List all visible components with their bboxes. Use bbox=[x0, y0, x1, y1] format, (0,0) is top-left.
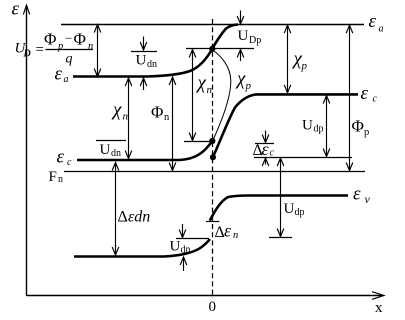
svg-text:F: F bbox=[49, 169, 57, 185]
tick at valence band right junction end bbox=[206, 221, 219, 223]
svg-text:c: c bbox=[67, 157, 72, 168]
svg-text:q: q bbox=[66, 52, 73, 67]
valence band right (epsilon_v, thick) bbox=[210, 196, 348, 221]
svg-text:v: v bbox=[365, 192, 371, 206]
svg-text:U: U bbox=[302, 118, 313, 134]
svg-text:Dp: Dp bbox=[249, 35, 261, 46]
vacuum level left (thick) with band bending curve bbox=[73, 25, 238, 77]
reference line at conduction offset level bbox=[254, 157, 352, 159]
svg-text:p: p bbox=[57, 41, 63, 52]
svg-text:p: p bbox=[301, 60, 308, 72]
arrow down onto delta-epsilon-c overline bbox=[265, 131, 267, 142]
svg-text:χ: χ bbox=[111, 100, 122, 121]
svg-text:c: c bbox=[373, 94, 378, 105]
svg-text:U: U bbox=[284, 201, 295, 217]
svg-text:n: n bbox=[207, 84, 213, 96]
svg-text:x: x bbox=[375, 300, 383, 316]
svg-text:c: c bbox=[270, 148, 275, 159]
svg-text:0: 0 bbox=[209, 299, 217, 315]
junction dashed line at x=0 bbox=[212, 19, 214, 298]
svg-text:p: p bbox=[245, 80, 252, 92]
U_dn overline (vacuum bending reference) bbox=[131, 51, 157, 53]
energy axis (vertical) bbox=[26, 6, 28, 296]
svg-text:U: U bbox=[170, 239, 181, 255]
svg-text:U: U bbox=[100, 142, 111, 158]
svg-text:dp: dp bbox=[295, 207, 305, 218]
svg-text:ε: ε bbox=[12, 0, 20, 20]
arrow delta-epsilon-dn (band gap, n-side) bbox=[115, 163, 117, 256]
svg-text:dn: dn bbox=[181, 245, 191, 256]
svg-text:χ: χ bbox=[196, 73, 207, 94]
svg-text:Φ: Φ bbox=[74, 30, 86, 49]
svg-text:Δ: Δ bbox=[118, 209, 128, 226]
svg-text:Φ: Φ bbox=[44, 30, 56, 49]
svg-text:n: n bbox=[88, 41, 93, 52]
svg-text:ε: ε bbox=[369, 11, 377, 32]
arrow U_b between vacuum levels bbox=[97, 25, 99, 77]
svg-text:n: n bbox=[233, 230, 238, 241]
conduction band left (epsilon_c, thick) bbox=[77, 141, 212, 160]
svg-text:ε: ε bbox=[57, 147, 65, 168]
arrow U_dp (valence, p-side) bbox=[280, 158, 282, 237]
junction dot on conduction band right bbox=[210, 154, 216, 160]
arrow chi_n (electron affinity, n-side) bbox=[128, 78, 130, 159]
svg-text:χ: χ bbox=[235, 69, 246, 90]
arrow U_dp (conduction, p-side) bbox=[326, 96, 328, 157]
svg-text:dn: dn bbox=[147, 59, 157, 70]
svg-text:Φ: Φ bbox=[151, 103, 163, 122]
svg-text:ε: ε bbox=[262, 139, 270, 159]
x axis (horizontal) bbox=[27, 295, 384, 297]
svg-text:p: p bbox=[364, 127, 369, 138]
svg-text:U: U bbox=[238, 28, 249, 44]
arrow up onto junction vacuum reference bbox=[240, 51, 242, 62]
arrow chi_p (electron affinity, p-side) bbox=[287, 25, 289, 93]
svg-text:n: n bbox=[164, 112, 170, 123]
svg-text:a: a bbox=[64, 74, 69, 85]
svg-text:−: − bbox=[65, 31, 72, 46]
svg-text:n: n bbox=[58, 174, 63, 185]
conduction band right (epsilon_c, thick) bbox=[213, 94, 358, 157]
reference line at conduction junction level bbox=[184, 141, 212, 143]
fraction bar bbox=[46, 49, 94, 51]
small arrow down onto U_dn reference bbox=[143, 37, 145, 50]
svg-text:=: = bbox=[36, 42, 44, 58]
arrow Phi_n (work function, n-side) bbox=[172, 77, 174, 171]
reference line at vacuum junction level bbox=[186, 48, 254, 50]
svg-text:Φ: Φ bbox=[352, 117, 364, 136]
arrow chi_n at junction bbox=[192, 50, 194, 141]
valence band left (epsilon_v, thick) bbox=[74, 239, 210, 257]
Fermi level line F_n bbox=[64, 171, 365, 173]
reference line at valence junction level bbox=[269, 237, 292, 239]
svg-text:dn: dn bbox=[111, 148, 121, 159]
arrow Phi_p (work function, p-side) bbox=[349, 25, 351, 170]
overline at valence junction level bbox=[176, 238, 209, 240]
svg-text:εdn: εdn bbox=[128, 209, 150, 226]
svg-text:ε: ε bbox=[224, 221, 232, 241]
svg-text:a: a bbox=[379, 24, 384, 35]
svg-text:n: n bbox=[123, 111, 129, 123]
vacuum level line right (epsilon_a, thin) bbox=[61, 24, 364, 26]
chi_p leader arc between junction dots bbox=[213, 50, 231, 141]
U_dn overline at junction conduction level bbox=[96, 140, 126, 142]
svg-text:D: D bbox=[23, 49, 31, 60]
junction dot on vacuum level bbox=[209, 46, 215, 52]
arrow down onto valence junction overline bbox=[182, 224, 184, 237]
arrow up onto conduction reference line bbox=[265, 159, 267, 165]
arrow up onto valence band left bbox=[183, 258, 185, 271]
small arrow up onto vacuum line bbox=[143, 79, 145, 90]
delta epsilon_c overline bbox=[255, 143, 274, 145]
svg-text:U: U bbox=[136, 53, 147, 69]
arrow down onto vacuum level right bbox=[240, 11, 242, 24]
svg-text:dp: dp bbox=[314, 124, 324, 135]
svg-text:ε: ε bbox=[353, 184, 361, 205]
junction dot on conduction band left bbox=[209, 138, 215, 144]
svg-text:ε: ε bbox=[361, 83, 369, 104]
svg-text:ε: ε bbox=[55, 64, 63, 85]
